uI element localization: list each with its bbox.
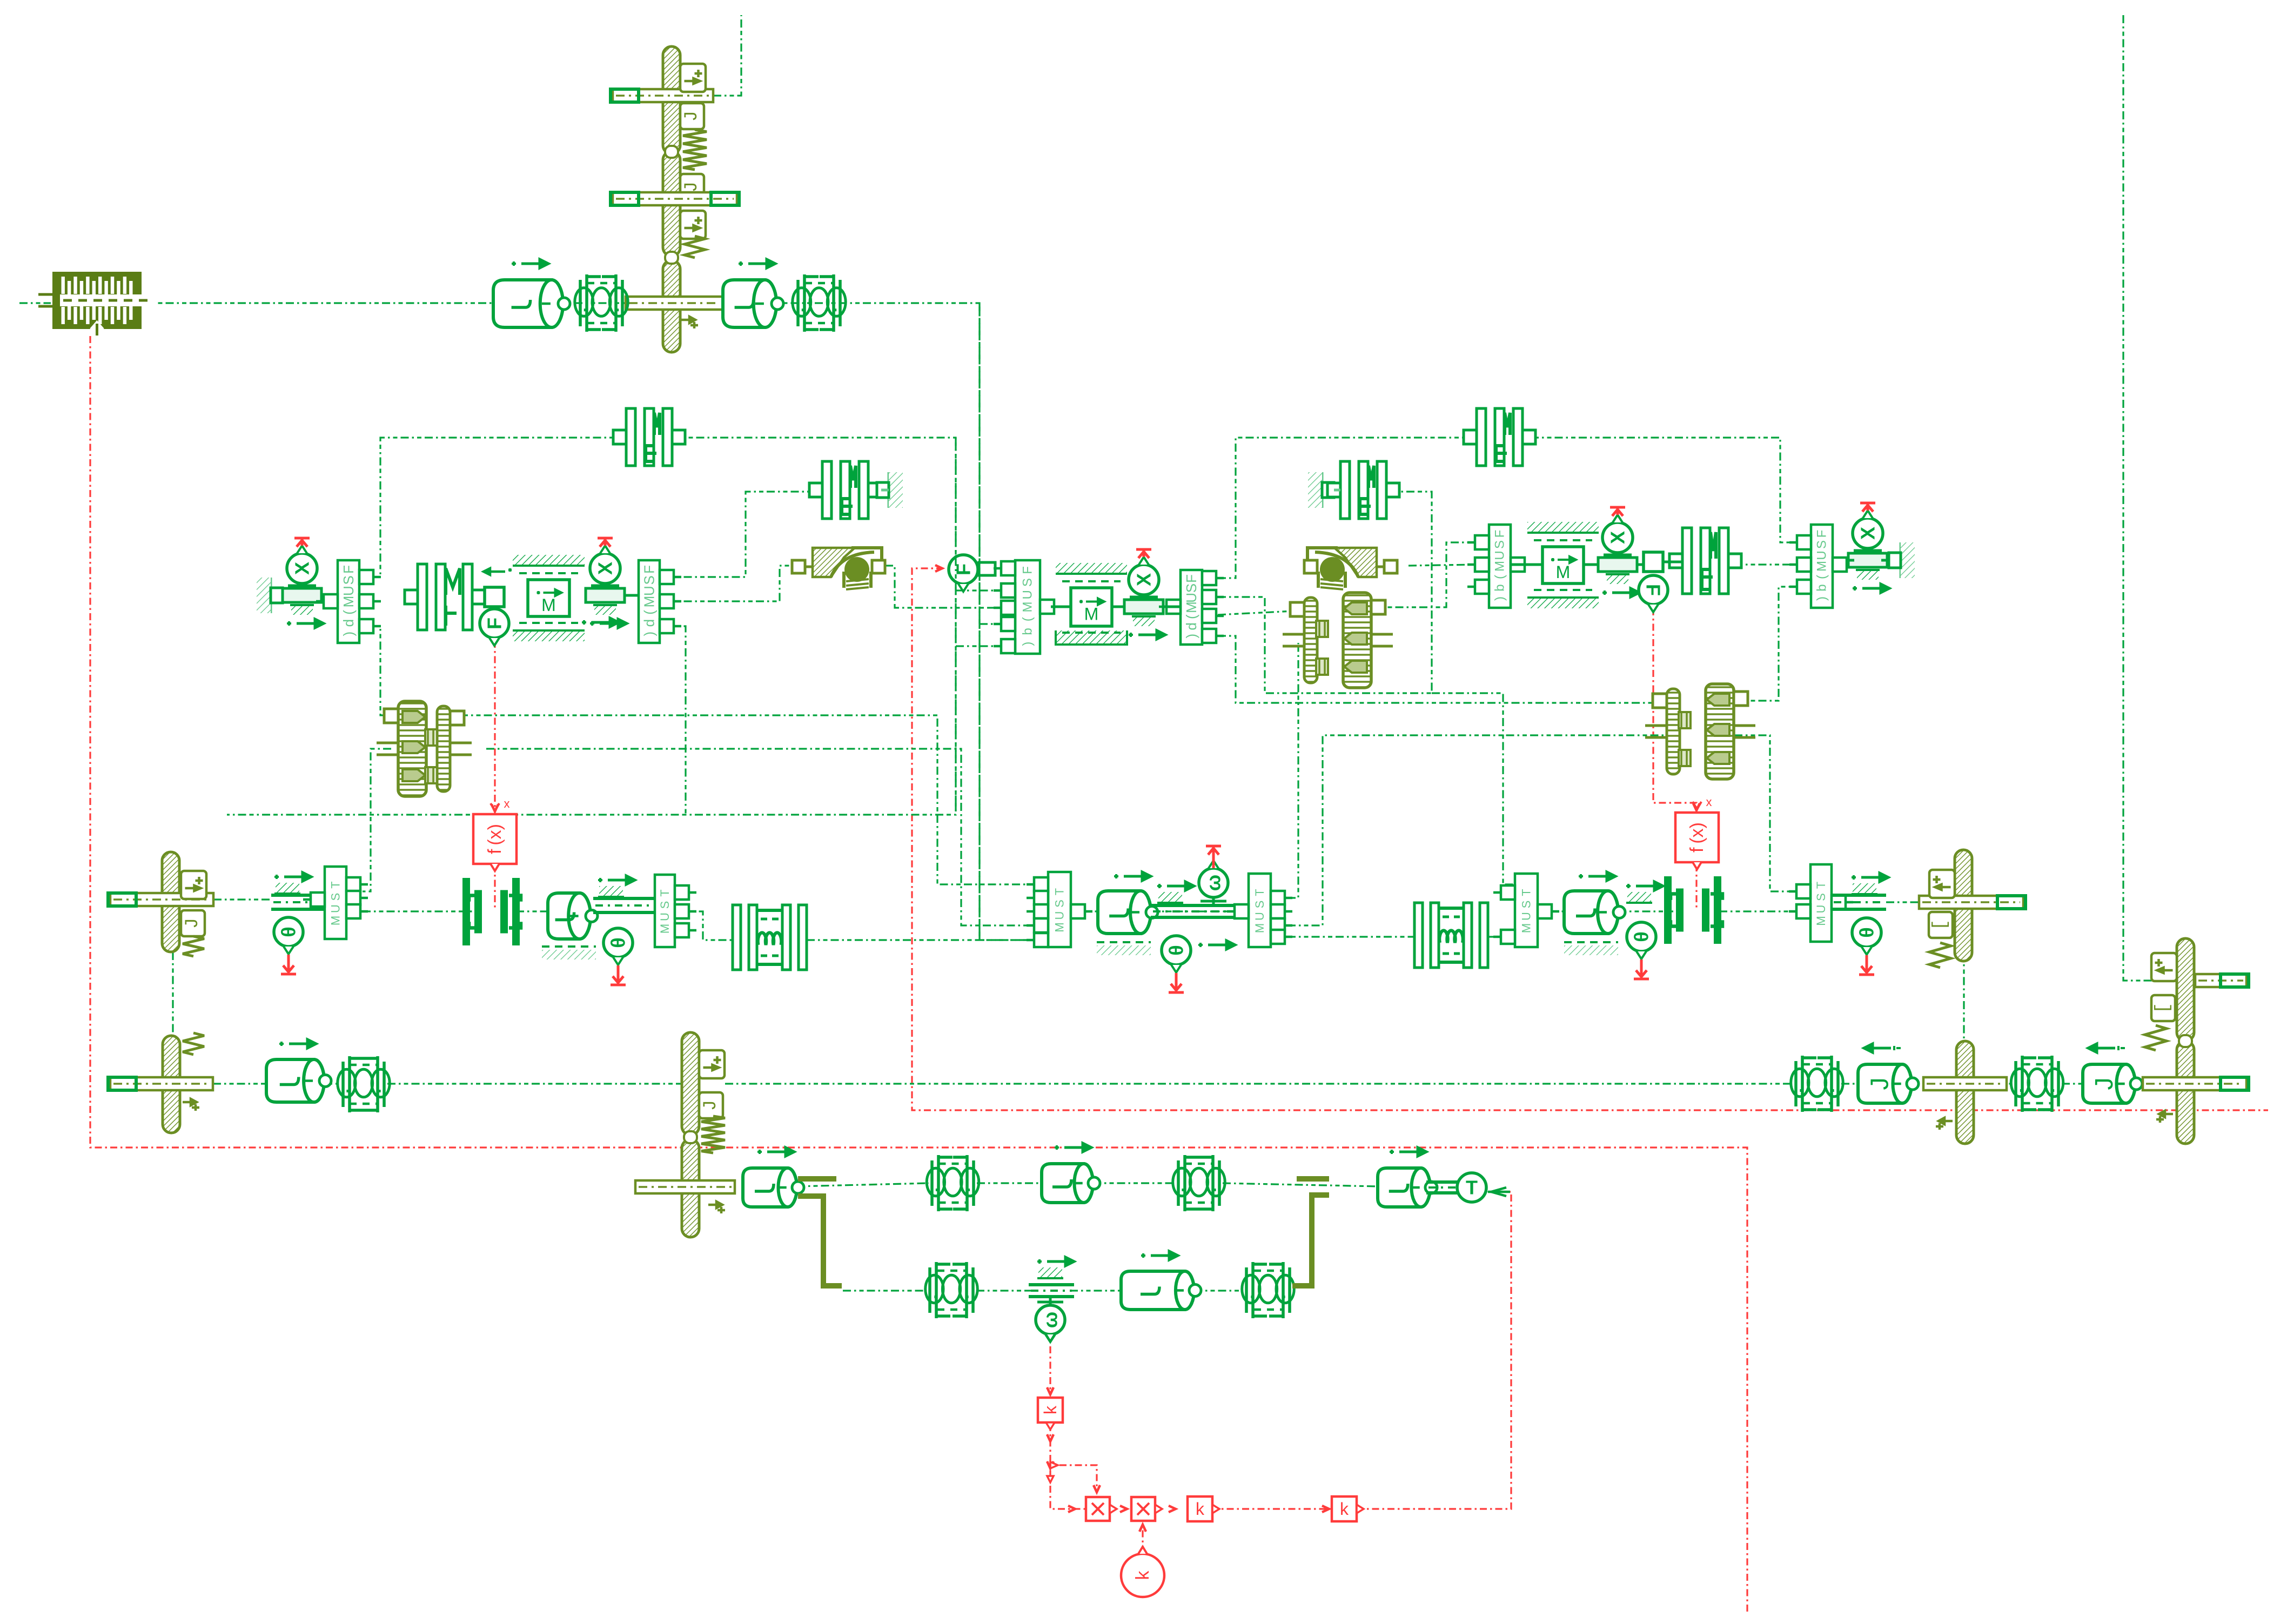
spring coupling S3 [343, 1056, 384, 1112]
k gain block k2 [1188, 1497, 1212, 1521]
theta sensor TS4 [1626, 882, 1663, 890]
J box WD1 [181, 910, 205, 936]
svg-text:[: [ [2153, 1003, 2174, 1014]
rotational damper DL (engine lower) [1121, 1271, 1194, 1310]
plus mark WD5 [2156, 1111, 2173, 1123]
force actuator A5 with sensor X5 [1848, 553, 1887, 567]
summation block SUMD3 F-SUM(d) [1181, 570, 1202, 645]
wire: row3-4 disk vertical links [172, 952, 173, 1036]
spring coupling S2 (row1) [798, 274, 840, 332]
wire: row3 left links [213, 898, 271, 900]
omega sensor OS2 (engine) [1037, 1257, 1074, 1266]
wire: SUM1 bottom pin to gear G1 top-left pin [372, 626, 396, 715]
svg-text:M: M [1814, 916, 1828, 925]
svg-text:M: M [1520, 923, 1533, 933]
constant source k circle [1121, 1554, 1164, 1597]
svg-text:U: U [1253, 912, 1266, 921]
plus box WD1 [181, 871, 206, 899]
wall ground for K4 [1321, 472, 1324, 508]
rotational damper D5 [1564, 891, 1618, 934]
svg-text:ω: ω [1203, 875, 1225, 891]
wall ground for K2 [888, 472, 890, 508]
svg-text:J: J [682, 111, 702, 122]
svg-text:S: S [641, 575, 658, 585]
inertia disk J3 (row1) [663, 260, 680, 352]
svg-text:f (x): f (x) [485, 824, 505, 854]
spring between J1 and J2 [683, 130, 707, 170]
wire: red signal from clutch pack down and across bottom [90, 336, 1747, 1614]
bracket box WD5 [2151, 995, 2175, 1021]
svg-text:U: U [1493, 551, 1507, 560]
svg-text:(: ( [1021, 617, 1035, 621]
clutch with spring K3 [1477, 408, 1486, 466]
theta sensor assembly TA1 [274, 873, 311, 881]
wire: vertical 1769 overlay [955, 438, 956, 815]
torque summation block TSUM4 [1249, 874, 1271, 947]
olive split link left [798, 1196, 842, 1286]
svg-text:θ: θ [1856, 927, 1878, 937]
rotational damper D6 [266, 1059, 324, 1102]
J box FW1 [699, 1092, 723, 1118]
theta sensor TS5 [1852, 873, 1888, 882]
wire: gear G1 lower-left to TSUM1 [363, 749, 391, 891]
wire: red f(x) left drop [494, 641, 495, 813]
wire: row3 center links [1071, 910, 1098, 912]
function block f(x) left [473, 814, 517, 864]
wire: row4 left [213, 1083, 266, 1084]
svg-text:M: M [1053, 922, 1067, 932]
shaft of J2 [613, 192, 737, 205]
svg-text:): ) [1493, 596, 1507, 601]
svg-text:S: S [658, 901, 672, 909]
svg-text:F: F [340, 565, 357, 574]
svg-text:S: S [329, 893, 343, 901]
multiplier X2 [1131, 1497, 1155, 1521]
torque summation block TSUM2 [655, 875, 675, 947]
svg-text:X: X [1607, 531, 1629, 544]
svg-text:(: ( [1183, 614, 1199, 619]
axle disk WD5 upper [2177, 938, 2194, 1041]
svg-text:U: U [1815, 551, 1829, 560]
olive split link right [1292, 1195, 1329, 1286]
elastic coupling EC1 [733, 905, 741, 970]
torque summation block TSUM5 [1515, 874, 1538, 947]
pill joint right axle disks [2179, 1035, 2192, 1047]
wire: cradle B1 right pin to SUM(b) pin3 [885, 566, 1015, 608]
svg-text:k: k [1041, 1405, 1060, 1414]
summation block SUMB2 F-SUM(b) right-center [1489, 525, 1511, 608]
clutch CL1 (gap clutch with f(x) control) [474, 890, 482, 934]
svg-text:M: M [329, 916, 343, 925]
svg-text:M: M [1556, 562, 1571, 582]
k gain block k3 [1332, 1497, 1357, 1521]
clutch with spring K5 [1682, 528, 1692, 594]
svg-text:(: ( [1815, 575, 1829, 579]
svg-text:S: S [1815, 540, 1829, 549]
svg-text:J: J [183, 918, 203, 929]
plus mark J3 [681, 317, 698, 328]
rotational damper D1 (row1) [493, 280, 563, 327]
plus box WD5 [2151, 953, 2177, 981]
svg-text:T: T [329, 881, 343, 888]
rotational damper D8 (to T sensor) [1378, 1168, 1430, 1207]
wire: SUM2 mid pin to cradle B1 [660, 566, 792, 601]
spring coupling S1 (row1) [580, 274, 622, 332]
svg-text:M: M [658, 924, 672, 934]
torque sensor T1 [1426, 1182, 1459, 1193]
svg-text:U: U [641, 586, 658, 596]
svg-text:k: k [1340, 1499, 1349, 1519]
axle disk WD4 [1956, 1041, 1974, 1144]
olive shaft through J3 [626, 297, 723, 310]
svg-text:(: ( [641, 610, 658, 615]
svg-text:U: U [1021, 590, 1035, 599]
rotational damper D9 J [1858, 1064, 1912, 1103]
force actuator A2 with position sensor X2 [586, 588, 625, 602]
wire: red omega to k1 [1049, 1346, 1051, 1395]
svg-text:U: U [1183, 593, 1199, 603]
svg-text:M: M [1183, 601, 1199, 613]
shaft of J1 [613, 89, 713, 102]
svg-text:X: X [1857, 527, 1879, 540]
svg-text:): ) [1021, 642, 1035, 646]
bracket box WD2 [1929, 912, 1953, 938]
wall ground W1 [270, 578, 272, 613]
shaft FW1 [635, 1180, 735, 1193]
wire: SUM(d)c pin1 up to clutch K3 [1218, 438, 1477, 578]
clutch with spring K4 anchored left wall [1340, 461, 1350, 519]
plus mark box J1 [680, 64, 706, 92]
spring WD1 [183, 936, 204, 956]
pill joint top assembly 2 [665, 252, 678, 264]
elastic coupling EC2 [1414, 903, 1423, 968]
torque summation block TSUM1 [325, 867, 346, 939]
wire: SUM1 top pin to clutch K1 [372, 438, 626, 577]
wire: red signal chain bottom [1050, 1424, 1085, 1509]
wire: red feedback loop k to T sensor [1357, 1192, 1511, 1509]
svg-text:M: M [1493, 561, 1507, 572]
svg-text:): ) [340, 632, 357, 636]
clutch pack CP1 (top left) [52, 272, 142, 329]
svg-text:J: J [2090, 1078, 2118, 1090]
shaft WD5 lower [2143, 1077, 2246, 1090]
J box of J2 [680, 174, 704, 200]
svg-text:M: M [340, 596, 357, 608]
svg-text:F: F [1021, 566, 1035, 574]
bearing cradle B2 (mirrored) [1384, 560, 1397, 573]
svg-text:U: U [1814, 905, 1828, 914]
torque summation block TSUM3 [1048, 872, 1071, 947]
svg-text:F: F [1642, 584, 1665, 596]
gear pair G2 (mirrored) [1343, 593, 1371, 688]
wheel disk WD2 (right) [1955, 850, 1972, 961]
spring coupling EL2 [1246, 1262, 1290, 1318]
clutch CL2 (gap clutch with f(x) control) [1676, 889, 1684, 932]
node N2 [1644, 552, 1663, 572]
svg-text:M: M [1021, 602, 1035, 613]
plus mark box J2 [680, 211, 706, 239]
shaft WD5 upper [2195, 974, 2246, 987]
shaft WD2 [1919, 896, 2023, 909]
plus mark FW1 [708, 1202, 725, 1213]
svg-text:S: S [1814, 893, 1828, 901]
rotational damper D3 [548, 893, 591, 939]
mass M3 [1527, 522, 1599, 533]
gear pair G3 (mirrored) [1706, 684, 1734, 779]
wall ground W5 [1900, 542, 1902, 578]
wire: SUM(d)c pin3 to gear G2 left pin [1218, 610, 1304, 615]
force summation block SUM2 F-SUM(d) [639, 560, 660, 643]
svg-text:d: d [340, 619, 357, 627]
plus box WD2 [1929, 870, 1955, 898]
inertia disk J2 [663, 151, 680, 256]
svg-text:U: U [329, 904, 343, 913]
plus mark WD3 [183, 1099, 199, 1111]
spring WD5 [2145, 1025, 2167, 1050]
theta sensor TS3 [1162, 936, 1191, 965]
svg-text:f (x): f (x) [1687, 822, 1707, 853]
spring FW1 [701, 1116, 725, 1153]
svg-text:J: J [682, 182, 702, 192]
wheel disk WD1 [162, 852, 179, 952]
wire: SUM(d)c pin2 frame to clutch K4w [1218, 492, 1432, 693]
spring coupling EU1 (engine upper) [932, 1155, 974, 1211]
svg-text:θ: θ [278, 927, 300, 937]
omega sensor OS1 [1157, 882, 1194, 890]
wire: T sensor green arrow lead [1488, 1191, 1510, 1193]
flywheel disk FW1 lower [682, 1139, 699, 1237]
wire: row4 long middle to right springbox [725, 1083, 1793, 1084]
mass M1 [513, 555, 585, 566]
svg-text:U: U [658, 912, 672, 921]
svg-text:U: U [1520, 912, 1533, 921]
spring WD3 [183, 1033, 204, 1055]
svg-text:T: T [1053, 888, 1067, 895]
function block f(x) right [1675, 813, 1719, 862]
wire: SUM(d)c pin4 long route to gear G3 [1218, 636, 1667, 703]
svg-text:b: b [1815, 584, 1829, 591]
rotational damper D4 [1098, 891, 1151, 934]
wire: SUM2 top pin to clutch K2 [660, 492, 822, 577]
svg-text:S: S [340, 575, 357, 585]
force sensor F1 (rotated) [480, 609, 509, 638]
svg-text:(: ( [340, 610, 357, 615]
wire: red signal from F sensor input down-left long run [912, 568, 2268, 1110]
wire: SUM(b) pin4 pin5 taps [980, 623, 1015, 625]
force sensor F3 (rotated) [1639, 575, 1668, 605]
mass M2 center [1056, 563, 1127, 574]
wire: green main top row [19, 302, 51, 304]
clutch with spring K2 anchored to wall [822, 461, 831, 519]
force summation block SUM1 F-SUM(d) [338, 560, 359, 643]
spring coupling S5 (right) [2016, 1056, 2058, 1112]
rotational damper D7 (engine) [743, 1168, 797, 1207]
plus box FW1 [699, 1050, 725, 1078]
wire: gear G3 right pin to SUM(b)r2 pin3 [1734, 587, 1811, 701]
svg-text:X: X [1133, 573, 1155, 586]
svg-text:F: F [1183, 574, 1199, 583]
wire: vertical 1813 overlay [978, 303, 980, 940]
svg-text:θ: θ [1165, 945, 1188, 955]
svg-text:S: S [1053, 900, 1067, 908]
svg-text:T: T [1814, 882, 1828, 889]
spring coupling EL1 (engine lower) [930, 1262, 973, 1318]
wire: clutch K1 right to vertical 1769 [227, 438, 956, 815]
force sensor F2 (input to SUM(b)) [949, 555, 978, 584]
svg-text:θ: θ [607, 937, 629, 948]
svg-text:d: d [641, 619, 658, 627]
spring coupling S4 (right) [1796, 1056, 1838, 1112]
svg-text:M: M [1084, 605, 1099, 624]
plus mark WD4 [1936, 1118, 1953, 1130]
shaft WD4 [1923, 1077, 2007, 1090]
shaft WD1 [110, 893, 213, 906]
force actuator A4 with sensor X4 [1598, 558, 1637, 572]
svg-text:X: X [594, 562, 616, 575]
wire: gear G1 top-right pin long route to TSUM3 [460, 715, 1031, 884]
svg-text:F: F [484, 618, 506, 629]
svg-text:k: k [1196, 1499, 1205, 1519]
svg-text:d: d [1183, 622, 1199, 630]
wire: vertical 1769 taps to SUM(b) pin2 [956, 589, 1015, 591]
svg-text:M: M [1815, 561, 1829, 572]
summation block SUMB3 F-SUM(b) rightmost [1811, 525, 1833, 608]
wire: TSUM4 right pins up-routes [1287, 643, 1298, 898]
svg-text:T: T [1466, 1177, 1478, 1199]
wire: gear G2 right pin to SUM(b)rc pin1 [1371, 542, 1475, 607]
gear pair G1 [398, 701, 426, 796]
svg-text:b: b [1021, 628, 1035, 635]
k gain block k1 [1038, 1398, 1063, 1422]
svg-text:S: S [1253, 901, 1266, 909]
svg-text:M: M [641, 596, 658, 608]
svg-text:): ) [1815, 596, 1829, 601]
svg-text:J: J [1866, 1078, 1894, 1090]
clutch with spring K1b [418, 564, 427, 630]
svg-text:S: S [1183, 583, 1199, 593]
svg-text:M: M [1253, 923, 1266, 933]
svg-text:[: [ [1930, 920, 1951, 930]
svg-text:T: T [1253, 889, 1266, 896]
rotational damper D10 J [2083, 1064, 2135, 1103]
svg-text:J: J [701, 1100, 721, 1111]
rotational damper DU (engine upper) [1042, 1164, 1093, 1203]
wire: SUM2 bottom pin down to cross line [660, 626, 686, 815]
wire: clutch K3 right to SUM(b)r2 pin1 [1531, 438, 1811, 542]
svg-text:S: S [1493, 540, 1507, 549]
torque summation block TSUM6 [1810, 864, 1832, 942]
svg-text:F: F [641, 565, 658, 574]
spring coupling EU2 [1178, 1155, 1219, 1211]
svg-text:S: S [1021, 578, 1035, 587]
node N1 [485, 587, 504, 607]
svg-text:k: k [1132, 1571, 1153, 1580]
multiplier X1 [1086, 1497, 1110, 1521]
spring small below J2 [685, 236, 705, 258]
svg-text:F: F [1815, 530, 1829, 538]
svg-text:x: x [504, 797, 510, 810]
force actuator A1 with position sensor X1 [283, 588, 321, 602]
bearing cradle B1 [792, 560, 805, 573]
svg-text:): ) [641, 632, 658, 636]
svg-text:X: X [291, 562, 313, 575]
wire: gear G1 lower-right long route to TSUM3 [486, 749, 1031, 925]
svg-text:b: b [1493, 584, 1507, 591]
axle disk WD5 lower [2177, 1041, 2194, 1144]
svg-text:(: ( [1493, 575, 1507, 579]
svg-text:T: T [658, 889, 672, 896]
wire: cradle B2 right to SUM(b)rc pin2 [1409, 565, 1475, 566]
clutch with spring K1 (upper) [626, 408, 635, 466]
wire: frame to TSUM5 left pin [1432, 693, 1515, 884]
flywheel disk FW1 upper [682, 1032, 699, 1135]
rotational damper D2 (row1) [723, 280, 776, 327]
svg-text:U: U [340, 586, 357, 596]
spring WD2 [1929, 943, 1951, 968]
svg-text:ω: ω [1039, 1312, 1062, 1328]
svg-text:F: F [1493, 530, 1507, 538]
wire: red f(x) right drop [1653, 608, 1696, 811]
svg-text:): ) [1183, 634, 1199, 639]
summation block SUMB1 F-SUM(b) [1015, 560, 1040, 654]
force actuator A3 with sensor X3 [1124, 600, 1163, 614]
wire: clutch K5 to SUM(b)r2 pin2 [1734, 563, 1811, 565]
svg-text:x: x [1706, 795, 1712, 809]
wire: green top shaft1 up link [713, 15, 741, 96]
inertia disk J1 (top shaft) [663, 46, 680, 154]
theta sensor assembly TA2 [598, 876, 635, 884]
svg-text:S: S [1520, 901, 1533, 909]
J box of J1 [680, 103, 704, 129]
svg-text:T: T [1520, 889, 1533, 896]
svg-text:M: M [541, 595, 556, 615]
svg-text:θ: θ [1631, 931, 1653, 942]
shaft WD3 [110, 1077, 213, 1090]
svg-text:U: U [1053, 911, 1067, 920]
wire: right gear to TSUM6 [1734, 735, 1810, 891]
pill joint flywheel [684, 1131, 697, 1143]
pill joint top assembly 1 [665, 146, 678, 158]
wire: engine branches [797, 1183, 929, 1186]
wire: green right tall vertical to upper-right disk [2123, 15, 2176, 981]
wheel disk WD3 [163, 1036, 180, 1133]
